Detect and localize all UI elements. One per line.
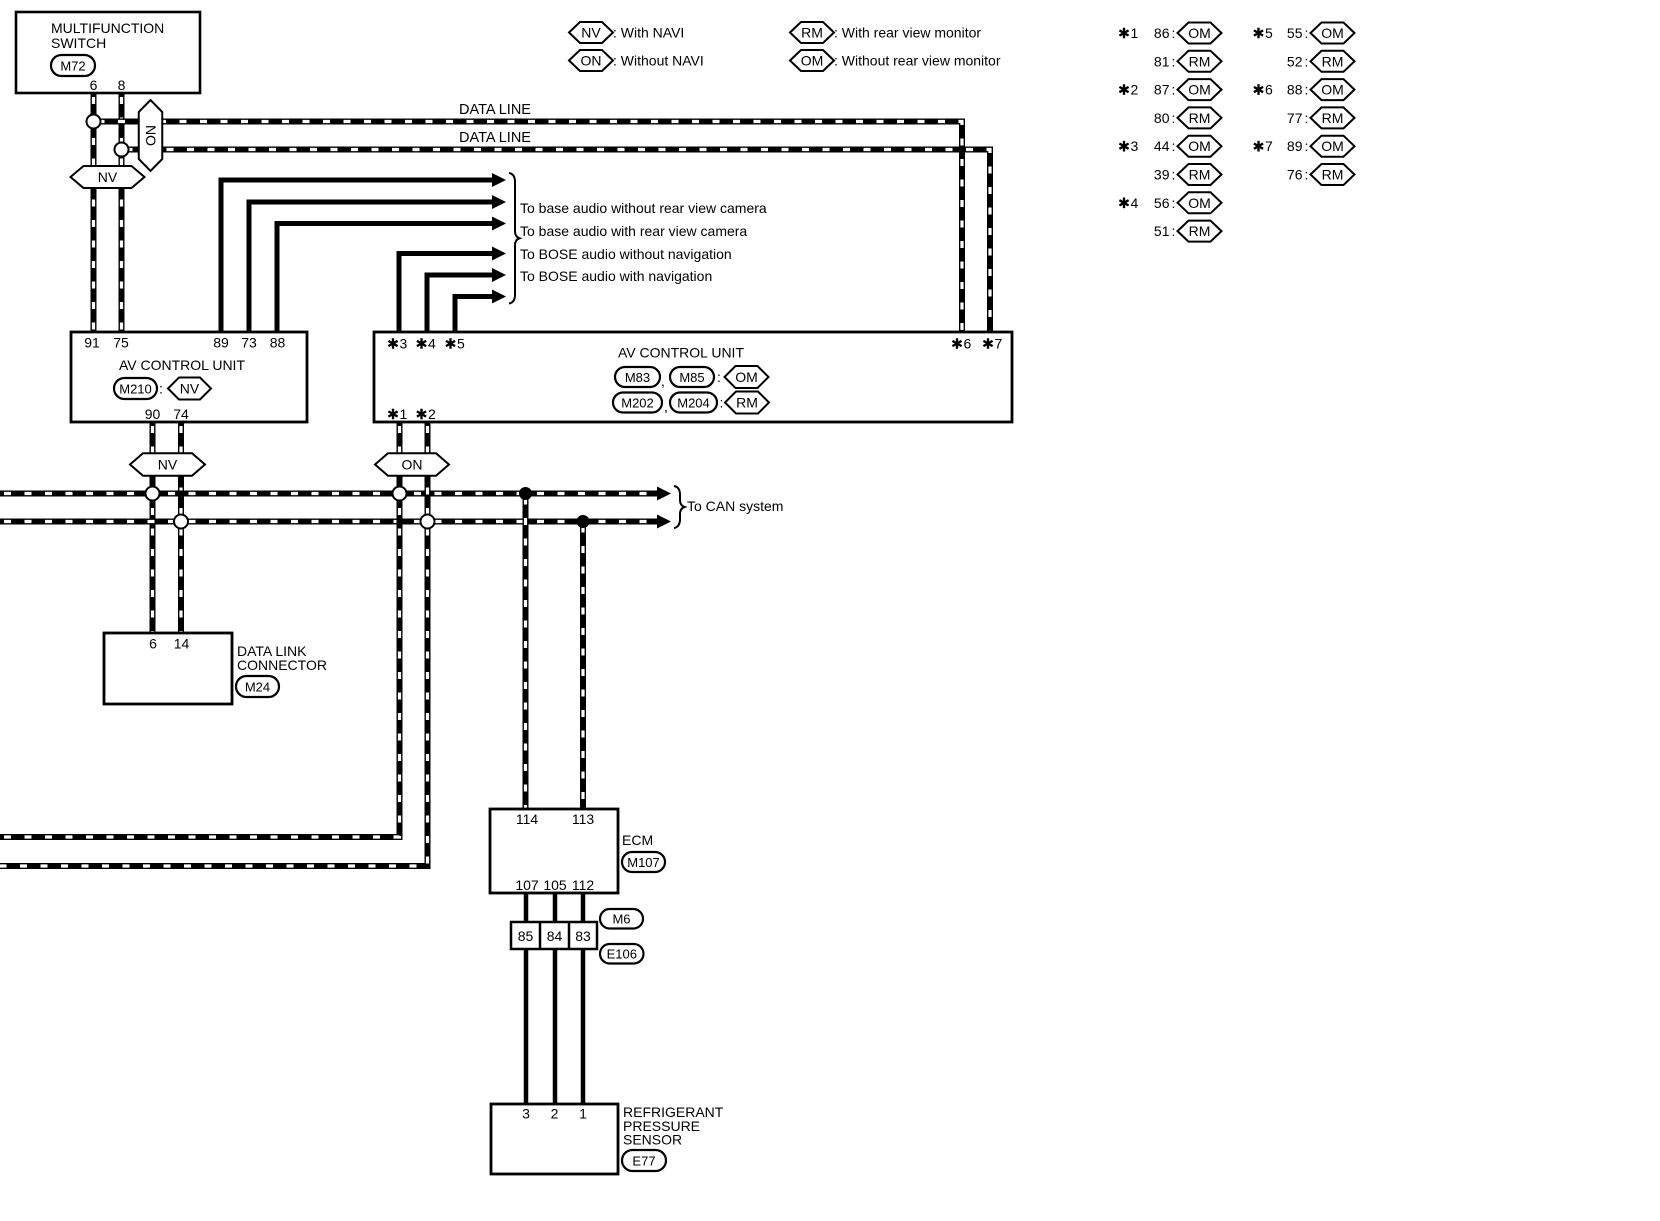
svg-text:89: 89 bbox=[213, 335, 229, 351]
svg-text:3: 3 bbox=[522, 1106, 530, 1122]
svg-text::: : bbox=[1305, 110, 1309, 126]
svg-text:14: 14 bbox=[174, 636, 190, 652]
label DATA LINE 1 bbox=[459, 102, 531, 118]
arrowhead wire AV pin 89 to base audio without rear view camera bbox=[492, 173, 506, 187]
option connector NV (top) bbox=[71, 166, 145, 188]
svg-text:RM: RM bbox=[736, 395, 758, 411]
svg-text:OM: OM bbox=[1188, 195, 1211, 211]
wire connector pin 83 to sensor pin 1 bbox=[581, 949, 586, 1104]
wire DATA LINE 2 to AV CONTROL UNIT pin *7 bbox=[122, 150, 991, 333]
svg-text:7: 7 bbox=[1265, 138, 1273, 154]
svg-text::: : bbox=[717, 369, 721, 385]
svg-text:RM: RM bbox=[1189, 53, 1211, 69]
connector box REFRIGERANT PRESSURE SENSOR E77 bbox=[491, 1104, 724, 1174]
label To base audio without rear view camera bbox=[520, 200, 767, 216]
svg-text:1: 1 bbox=[400, 406, 408, 422]
svg-text:4: 4 bbox=[428, 336, 436, 352]
svg-text:86: 86 bbox=[1154, 25, 1170, 41]
option table left row 51:RM bbox=[1154, 221, 1222, 242]
wire MULTIFUNCTION SWITCH pin 8 to AV CONTROL UNIT pin 75 bbox=[119, 93, 125, 332]
connector box MULTIFUNCTION SWITCH M72 bbox=[16, 12, 200, 93]
svg-text:: With rear view monitor: : With rear view monitor bbox=[834, 25, 981, 41]
svg-text:113: 113 bbox=[572, 811, 595, 827]
svg-text:M85: M85 bbox=[679, 370, 704, 385]
svg-text:83: 83 bbox=[575, 928, 591, 944]
svg-text:91: 91 bbox=[84, 335, 100, 351]
svg-text:6: 6 bbox=[964, 336, 972, 352]
wire ECM pin 105 to connector pin 84 bbox=[553, 893, 558, 922]
svg-text:OM: OM bbox=[1188, 82, 1211, 98]
svg-text:44: 44 bbox=[1154, 138, 1170, 154]
svg-text:OM: OM bbox=[1321, 138, 1344, 154]
svg-text:2: 2 bbox=[1131, 82, 1139, 98]
wire connector pin 84 to sensor pin 2 bbox=[553, 949, 558, 1104]
wire CAN line 1 bbox=[0, 491, 657, 497]
junction dot CAN line 2 / ECM wire bbox=[577, 515, 590, 528]
arrowhead wire AV pin 73 to base audio bbox=[492, 195, 506, 209]
arrowhead CAN line 2 bbox=[657, 515, 671, 529]
svg-text:M6: M6 bbox=[612, 912, 630, 927]
pin *4 bbox=[417, 338, 426, 349]
svg-text:RM: RM bbox=[1189, 167, 1211, 183]
wire CAN line 2 to ECM pin 113 bbox=[580, 522, 586, 810]
svg-text::: : bbox=[720, 395, 724, 411]
svg-text:39: 39 bbox=[1154, 167, 1170, 183]
svg-text:DATA LINE: DATA LINE bbox=[459, 130, 531, 146]
arrowhead CAN line 1 bbox=[657, 487, 671, 501]
junction AV pin *1 wire / CAN line 1 bbox=[393, 487, 407, 501]
connector box AV CONTROL UNIT M83/M85/M202/M204 bbox=[374, 332, 1012, 422]
junction pin 6 wire / DATA LINE 1 bbox=[87, 115, 101, 129]
wire connector pin 85 to sensor pin 3 bbox=[524, 949, 529, 1104]
svg-text:OM: OM bbox=[1321, 25, 1344, 41]
option table right row 76:RM bbox=[1287, 164, 1355, 185]
svg-text::: : bbox=[159, 381, 163, 397]
arrowhead wire AV pin *4 to BOSE audio bbox=[492, 268, 506, 282]
svg-text:NV: NV bbox=[180, 381, 200, 397]
junction AV pin 74 wire / CAN line 2 bbox=[174, 515, 188, 529]
legend OM : Without rear view monitor bbox=[790, 50, 1001, 71]
wire CAN line 2 bbox=[0, 519, 657, 525]
svg-text:2: 2 bbox=[428, 406, 436, 422]
svg-text:80: 80 bbox=[1154, 110, 1170, 126]
option table right row 88:OM bbox=[1254, 79, 1355, 100]
wire AV pin *1 down and left bbox=[0, 422, 400, 837]
wire AV pin *4 to BOSE audio bbox=[427, 275, 493, 332]
svg-text:RM: RM bbox=[1322, 110, 1344, 126]
wire DATA LINE 1 to AV CONTROL UNIT pin *6 bbox=[94, 122, 963, 333]
junction pin 8 wire / DATA LINE 2 bbox=[115, 143, 129, 157]
svg-text:E77: E77 bbox=[632, 1154, 655, 1169]
svg-text::: : bbox=[1172, 53, 1176, 69]
option table left row 81:RM bbox=[1154, 51, 1222, 72]
svg-text:NV: NV bbox=[158, 457, 178, 473]
option connector ON (above CAN lines) bbox=[375, 453, 449, 476]
svg-text:5: 5 bbox=[1265, 25, 1273, 41]
arrowhead wire AV pin *5 to BOSE audio with navigation bbox=[492, 290, 506, 304]
wire AV pin 90 to DATA LINK CONNECTOR pin 6 bbox=[150, 422, 156, 633]
wire AV pin *5 to BOSE audio with navigation bbox=[455, 297, 493, 333]
svg-text:AV CONTROL UNIT: AV CONTROL UNIT bbox=[119, 357, 245, 373]
svg-text::: : bbox=[1172, 82, 1176, 98]
wire AV pin 88 to base audio with rear view camera bbox=[277, 224, 493, 333]
svg-text:7: 7 bbox=[995, 336, 1003, 352]
svg-text:To base audio without rear vie: To base audio without rear view camera bbox=[520, 200, 767, 216]
svg-text:51: 51 bbox=[1154, 223, 1170, 239]
option table right row 77:RM bbox=[1287, 107, 1355, 128]
svg-text:ON: ON bbox=[581, 53, 602, 69]
wire AV pin 73 to base audio bbox=[249, 202, 493, 332]
connector box AV CONTROL UNIT M210 bbox=[71, 332, 307, 422]
pin *5 bbox=[446, 338, 455, 349]
label To base audio with rear view camera bbox=[520, 223, 747, 239]
label To CAN system bbox=[687, 498, 783, 514]
svg-text::: : bbox=[1172, 138, 1176, 154]
svg-text:M83: M83 bbox=[625, 370, 650, 385]
svg-text:105: 105 bbox=[543, 877, 567, 893]
svg-text:ON: ON bbox=[143, 125, 159, 146]
svg-text:77: 77 bbox=[1287, 110, 1303, 126]
svg-text:114: 114 bbox=[516, 811, 539, 827]
svg-text:76: 76 bbox=[1287, 167, 1303, 183]
svg-text:SWITCH: SWITCH bbox=[51, 35, 106, 51]
svg-text::: : bbox=[1305, 53, 1309, 69]
connector box ECM M107 bbox=[490, 809, 665, 893]
junction AV pin *2 wire / CAN line 2 bbox=[421, 515, 435, 529]
svg-text:NV: NV bbox=[98, 169, 118, 185]
svg-text:To CAN system: To CAN system bbox=[687, 498, 783, 514]
option table right row 55:OM bbox=[1254, 23, 1355, 44]
svg-text:OM: OM bbox=[1321, 82, 1344, 98]
option table right row 89:OM bbox=[1254, 136, 1355, 157]
svg-text:75: 75 bbox=[113, 335, 129, 351]
svg-text:52: 52 bbox=[1287, 53, 1303, 69]
svg-text:ON: ON bbox=[402, 457, 423, 473]
pin *3 bbox=[388, 338, 397, 349]
svg-text:6: 6 bbox=[149, 636, 157, 652]
brace To CAN system bbox=[674, 486, 685, 528]
junction dot CAN line 1 / ECM wire bbox=[519, 487, 532, 500]
svg-text:M210: M210 bbox=[119, 382, 152, 397]
svg-text:M107: M107 bbox=[627, 855, 660, 870]
legend NV : With NAVI bbox=[569, 22, 684, 43]
svg-text::: : bbox=[1172, 25, 1176, 41]
svg-text:OM: OM bbox=[735, 369, 758, 385]
option connector ON (vertical, top) bbox=[139, 100, 163, 171]
legend ON : Without NAVI bbox=[569, 50, 704, 71]
svg-text:To base audio with rear view c: To base audio with rear view camera bbox=[520, 223, 747, 239]
svg-text:4: 4 bbox=[1131, 195, 1139, 211]
option table left row 56:OM bbox=[1119, 192, 1221, 213]
arrowhead wire AV pin 88 to base audio with rear view camera bbox=[492, 217, 506, 231]
svg-text:M24: M24 bbox=[245, 680, 270, 695]
svg-text::: : bbox=[1172, 167, 1176, 183]
wire AV pin *3 to BOSE audio without navigation bbox=[399, 254, 493, 333]
svg-text:: With NAVI: : With NAVI bbox=[613, 25, 684, 41]
svg-text:3: 3 bbox=[1131, 138, 1139, 154]
svg-text:To BOSE audio without navigati: To BOSE audio without navigation bbox=[520, 246, 732, 262]
svg-text::: : bbox=[1172, 223, 1176, 239]
pin *7 bbox=[983, 338, 992, 349]
svg-text:8: 8 bbox=[118, 77, 126, 93]
svg-text:AV CONTROL UNIT: AV CONTROL UNIT bbox=[618, 345, 744, 361]
svg-text:E106: E106 bbox=[607, 947, 637, 962]
svg-text::: : bbox=[1172, 195, 1176, 211]
svg-text:NV: NV bbox=[581, 25, 601, 41]
option table left row 80:RM bbox=[1154, 107, 1222, 128]
wire MULTIFUNCTION SWITCH pin 6 to AV CONTROL UNIT pin 91 bbox=[91, 93, 97, 332]
svg-text:1: 1 bbox=[579, 1106, 587, 1122]
option connector NV (above CAN lines) bbox=[130, 453, 205, 476]
svg-text::: : bbox=[1305, 138, 1309, 154]
svg-text:84: 84 bbox=[547, 928, 563, 944]
svg-text:CONNECTOR: CONNECTOR bbox=[237, 657, 327, 673]
legend RM : With rear view monitor bbox=[790, 22, 981, 43]
svg-text:OM: OM bbox=[1188, 138, 1211, 154]
junction AV pin 90 wire / CAN line 1 bbox=[146, 487, 160, 501]
svg-text:55: 55 bbox=[1287, 25, 1303, 41]
svg-text:85: 85 bbox=[518, 928, 534, 944]
svg-text:,: , bbox=[661, 373, 665, 389]
svg-text:2: 2 bbox=[551, 1106, 559, 1122]
svg-text:88: 88 bbox=[1287, 82, 1303, 98]
svg-text:3: 3 bbox=[400, 336, 408, 352]
label DATA LINE 2 bbox=[459, 130, 531, 146]
svg-text:5: 5 bbox=[457, 336, 465, 352]
svg-text:73: 73 bbox=[241, 335, 257, 351]
option table left row 44:OM bbox=[1119, 136, 1221, 157]
svg-text:MULTIFUNCTION: MULTIFUNCTION bbox=[51, 20, 164, 36]
connector box DATA LINK CONNECTOR M24 bbox=[104, 633, 327, 704]
svg-text:RM: RM bbox=[1322, 167, 1344, 183]
svg-text:OM: OM bbox=[801, 53, 824, 69]
svg-text:DATA LINE: DATA LINE bbox=[459, 102, 531, 118]
svg-text:RM: RM bbox=[801, 25, 823, 41]
arrowhead wire AV pin *3 to BOSE audio without navigation bbox=[492, 247, 506, 261]
svg-text::: : bbox=[1172, 110, 1176, 126]
svg-text:56: 56 bbox=[1154, 195, 1170, 211]
svg-text:RM: RM bbox=[1322, 53, 1344, 69]
option table left row 86:OM bbox=[1119, 23, 1221, 44]
wire AV pin 89 to base audio without rear view camera bbox=[221, 180, 493, 332]
svg-text:6: 6 bbox=[1265, 82, 1273, 98]
pin *2 bbox=[417, 409, 426, 420]
svg-text:89: 89 bbox=[1287, 138, 1303, 154]
svg-text:6: 6 bbox=[90, 77, 98, 93]
wire AV pin 74 to DATA LINK CONNECTOR pin 14 bbox=[178, 422, 184, 633]
svg-text:74: 74 bbox=[173, 406, 189, 422]
svg-text:M202: M202 bbox=[621, 396, 654, 411]
svg-text::: : bbox=[1305, 25, 1309, 41]
pass-through connector M6 / E106 bbox=[511, 909, 644, 964]
svg-text:88: 88 bbox=[270, 335, 286, 351]
svg-text:: Without rear view monitor: : Without rear view monitor bbox=[834, 53, 1001, 69]
label To BOSE audio without navigation bbox=[520, 246, 732, 262]
svg-text:1: 1 bbox=[1131, 25, 1139, 41]
svg-text:M204: M204 bbox=[677, 396, 710, 411]
option table left row 39:RM bbox=[1154, 164, 1222, 185]
svg-text:107: 107 bbox=[515, 877, 539, 893]
svg-text:,: , bbox=[664, 399, 668, 415]
wire ECM pin 112 to connector pin 83 bbox=[581, 893, 586, 922]
pin *6 bbox=[952, 338, 961, 349]
svg-text:81: 81 bbox=[1154, 53, 1170, 69]
svg-text:RM: RM bbox=[1189, 223, 1211, 239]
wire ECM pin 107 to connector pin 85 bbox=[524, 893, 529, 922]
svg-text:112: 112 bbox=[572, 877, 595, 893]
wire CAN line 1 to ECM pin 114 bbox=[523, 494, 529, 810]
option table left row 87:OM bbox=[1119, 79, 1221, 100]
svg-text:RM: RM bbox=[1189, 110, 1211, 126]
svg-text::: : bbox=[1305, 82, 1309, 98]
svg-text:M72: M72 bbox=[60, 59, 85, 74]
svg-text:87: 87 bbox=[1154, 82, 1170, 98]
pin *1 bbox=[388, 409, 397, 420]
option table right row 52:RM bbox=[1287, 51, 1355, 72]
brace audio outputs bbox=[509, 173, 520, 304]
svg-text:SENSOR: SENSOR bbox=[623, 1132, 682, 1148]
svg-text:To BOSE audio with navigation: To BOSE audio with navigation bbox=[520, 268, 712, 284]
svg-text::: : bbox=[1305, 167, 1309, 183]
svg-text:OM: OM bbox=[1188, 25, 1211, 41]
svg-text:ECM: ECM bbox=[622, 832, 653, 848]
wire AV pin *2 down and left bbox=[0, 422, 428, 866]
label To BOSE audio with navigation bbox=[520, 268, 712, 284]
svg-text:90: 90 bbox=[145, 406, 161, 422]
svg-text:: Without NAVI: : Without NAVI bbox=[613, 53, 704, 69]
